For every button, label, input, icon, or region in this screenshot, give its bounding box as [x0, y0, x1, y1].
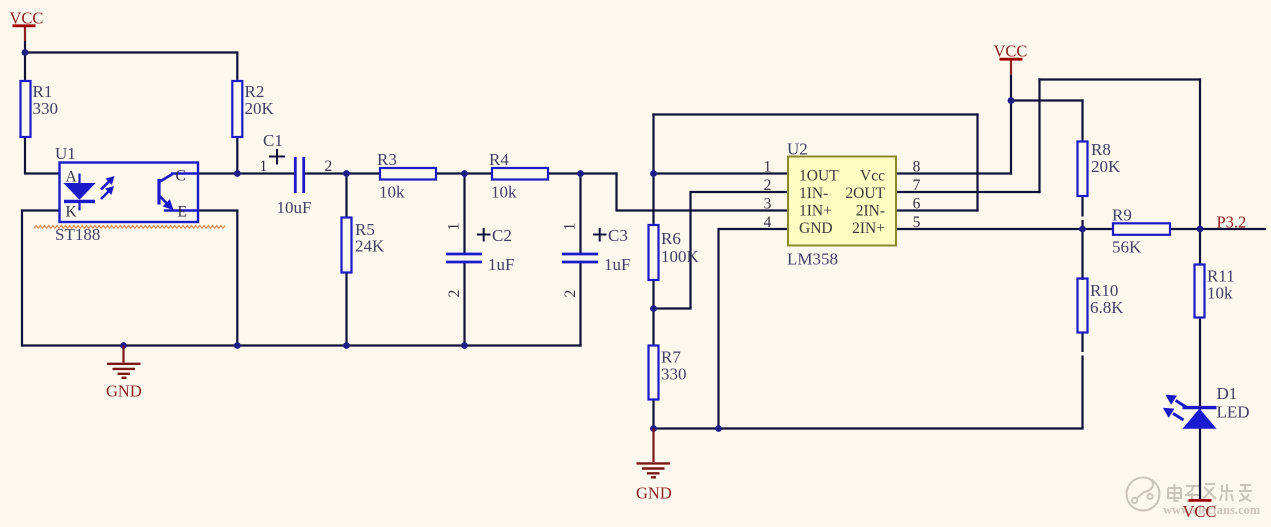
wire node to C3 top	[579, 174, 581, 254]
wire VCC node to R8	[1010, 99, 1084, 101]
wire R1 bottom to U1 pin A	[24, 137, 60, 174]
svg-text:GND: GND	[799, 220, 833, 237]
wire pin7 riser	[1038, 78, 1040, 193]
wire C3 bottom lead	[579, 263, 581, 347]
node C2/rail junction	[461, 342, 468, 349]
capacitor C1 plates	[295, 157, 303, 193]
svg-text:P3.2: P3.2	[1217, 213, 1247, 232]
wire U2 pin7 2OUT	[896, 191, 1041, 193]
node R2/C pin junction	[234, 170, 241, 177]
capacitor C2 plates	[446, 254, 482, 262]
svg-text:1uF: 1uF	[488, 255, 514, 274]
diode D1 cathode bar	[1183, 406, 1217, 409]
U1 LED anode stub	[78, 174, 80, 185]
wire top right horizontal	[1038, 78, 1201, 80]
U1 LED cathode bar	[64, 200, 95, 203]
node VCC2 junction	[1008, 97, 1015, 104]
node P3.2 junction	[1197, 226, 1204, 233]
svg-text:VCC: VCC	[1183, 502, 1217, 521]
resistor R4	[492, 168, 548, 180]
resistor R1	[21, 81, 31, 137]
svg-text:R3: R3	[377, 150, 397, 169]
svg-text:1IN-: 1IN-	[799, 185, 828, 202]
svg-text:330: 330	[33, 99, 59, 118]
svg-text:R4: R4	[489, 150, 509, 169]
U1 phototransistor emitter with arrow	[160, 196, 173, 209]
wire pin8 riser to VCC	[1010, 99, 1012, 174]
node R4/C3 junction	[577, 170, 584, 177]
svg-text:VCC: VCC	[10, 9, 44, 28]
svg-text:C2: C2	[492, 226, 512, 245]
svg-text:5: 5	[913, 214, 921, 231]
svg-text:R6: R6	[661, 229, 681, 248]
resistor R2	[232, 81, 242, 137]
capacitor C3 plates	[562, 254, 598, 262]
node R6/R7/pin2 junction	[650, 305, 657, 312]
svg-text:330: 330	[661, 365, 687, 384]
wire D1 to VCC3	[1199, 408, 1201, 500]
svg-text:100K: 100K	[661, 247, 700, 266]
U1 phototransistor base bar	[157, 179, 160, 205]
svg-text:E: E	[178, 204, 187, 221]
ground symbol GND1	[107, 346, 141, 378]
node R8/R9/R10 junction	[1079, 226, 1086, 233]
svg-text:10uF: 10uF	[277, 198, 312, 217]
wire U1 pin K	[21, 209, 60, 211]
svg-text:C1: C1	[263, 131, 283, 150]
wire feedback top horizontal	[652, 113, 978, 115]
wire gnd rail 2	[652, 427, 1083, 429]
wire R11 to D1	[1199, 317, 1201, 408]
wire U2 pin5 row to R9	[896, 228, 1114, 230]
svg-text:1uF: 1uF	[604, 255, 630, 274]
wire R7 top lead	[652, 309, 654, 347]
resistor R10	[1078, 279, 1088, 333]
svg-text:10k: 10k	[491, 183, 517, 202]
node pin4/rail junction	[715, 425, 722, 432]
D1 emission arrow lower	[1164, 409, 1183, 420]
node VCC1 junction	[22, 49, 29, 56]
svg-text:2OUT: 2OUT	[845, 185, 885, 202]
svg-text:GND: GND	[636, 484, 672, 503]
svg-text:R9: R9	[1112, 206, 1132, 225]
wire U2 pin8 Vcc	[896, 172, 1012, 174]
U1 emission arrow upper	[101, 177, 113, 189]
svg-text:6.8K: 6.8K	[1090, 298, 1124, 317]
D1 emission arrow upper	[1167, 396, 1186, 407]
wire pin2 vertical	[689, 191, 691, 309]
wire C1 to node 2 to R3	[304, 172, 382, 174]
svg-text:7: 7	[913, 177, 921, 194]
svg-text:20K: 20K	[245, 99, 275, 118]
wire R6 bottom lead	[652, 279, 654, 310]
wire R8 bottom lead	[1081, 195, 1083, 230]
svg-text:8: 8	[913, 159, 921, 176]
svg-text:3: 3	[764, 196, 772, 213]
wire jog to U2 pin 3	[617, 209, 789, 211]
svg-text:2: 2	[446, 290, 463, 298]
wire K loop vertical	[21, 209, 23, 346]
wire gnd rail 1	[21, 344, 582, 346]
wire R5 bottom lead	[345, 272, 347, 347]
svg-text:1: 1	[764, 159, 772, 176]
wire pin4 vertical to gnd rail	[717, 228, 719, 429]
wire pin2 to R6/R7 node	[652, 307, 691, 309]
wire U1 collector row interior	[171, 172, 198, 174]
resistor R11	[1195, 265, 1205, 318]
resistor R3	[380, 168, 436, 180]
svg-text:GND: GND	[106, 382, 142, 401]
resistor R6	[649, 225, 659, 280]
wire R10 top lead	[1081, 228, 1083, 280]
wire R11 top lead	[1199, 229, 1201, 266]
capacitor C3 plus sign	[593, 228, 607, 242]
U1 phototransistor collector	[160, 174, 173, 182]
svg-text:10k: 10k	[1207, 284, 1233, 303]
svg-text:6: 6	[913, 196, 921, 213]
power VCC2 bar	[1000, 58, 1023, 61]
svg-text:2: 2	[562, 290, 579, 298]
resistor R5	[342, 218, 352, 273]
node 1OUT/R6 junction	[650, 170, 657, 177]
wire R4 to jog corner	[547, 172, 618, 174]
svg-text:U2: U2	[787, 140, 808, 159]
svg-text:2: 2	[325, 158, 333, 175]
wire R3 to R4	[435, 172, 493, 174]
svg-text:VCC: VCC	[994, 42, 1028, 61]
svg-text:1: 1	[562, 223, 579, 231]
ground symbol GND2	[637, 429, 671, 478]
node R5/rail junction	[343, 342, 350, 349]
wire U1 pin C to C1	[197, 172, 296, 174]
svg-text:1IN+: 1IN+	[799, 203, 832, 220]
svg-text:2IN+: 2IN+	[852, 220, 885, 237]
svg-text:Vcc: Vcc	[860, 168, 885, 185]
wire top rail VCC to R2	[24, 51, 239, 53]
U1 emission arrow lower	[101, 187, 113, 199]
wire R8 top drop	[1081, 99, 1083, 142]
wire U2 pin1 1OUT to R6 node	[652, 172, 788, 174]
capacitor C2 plus sign	[477, 228, 491, 242]
svg-text:56K: 56K	[1112, 238, 1142, 257]
wire U1 emitter row interior	[164, 209, 198, 211]
svg-text:U1: U1	[55, 144, 76, 163]
svg-text:A: A	[66, 169, 78, 186]
wire U2 pin4 GND	[719, 228, 789, 230]
watermark logo circle	[1127, 478, 1160, 511]
svg-text:1OUT: 1OUT	[799, 168, 839, 185]
svg-text:1: 1	[260, 158, 268, 175]
node GND1 junction	[120, 342, 127, 349]
wire R6 node vertical to R6 top	[652, 113, 654, 226]
wire P3.2 riser	[1199, 78, 1201, 229]
resistor R9	[1113, 223, 1170, 235]
wire R10 bottom riser	[1081, 332, 1083, 429]
resistor R7	[649, 346, 659, 400]
wire node2 to R5 top	[345, 174, 347, 219]
wire U2 pin2 1IN-	[691, 191, 789, 193]
wire E loop vertical	[236, 211, 238, 346]
wire U1 pin E	[197, 209, 238, 211]
svg-text:2IN-: 2IN-	[856, 203, 885, 220]
node GND2 junction	[650, 425, 657, 432]
wire R2 top lead	[236, 53, 238, 82]
optocoupler U1 box	[60, 163, 199, 223]
svg-text:4: 4	[764, 214, 772, 231]
node E loop/rail junction	[234, 342, 241, 349]
svg-text:K: K	[66, 204, 78, 221]
svg-text:C3: C3	[608, 226, 628, 245]
svg-text:24K: 24K	[355, 237, 385, 256]
svg-text:2: 2	[764, 177, 772, 194]
diode D1 triangle	[1184, 409, 1216, 428]
svg-text:LM358: LM358	[787, 250, 838, 269]
wire VCC2 to node	[1010, 75, 1012, 102]
op-amp U2 box	[788, 157, 896, 246]
power VCC3 bar	[1189, 499, 1212, 502]
svg-text:1: 1	[446, 223, 463, 231]
svg-text:C: C	[176, 168, 186, 185]
resistor R8	[1078, 142, 1088, 197]
U1 LED triangle	[65, 184, 95, 200]
svg-text:D1: D1	[1217, 384, 1238, 403]
capacitor C1 plus sign	[269, 149, 285, 165]
wire VCC2 stem	[1010, 61, 1012, 76]
U1 LED cathode stub	[78, 203, 80, 211]
svg-text:20K: 20K	[1091, 157, 1121, 176]
wire VCC1 to node	[24, 41, 26, 54]
node R3/C2 junction	[461, 170, 468, 177]
wire node to C2 top	[463, 174, 465, 254]
watermark chinese text	[1168, 484, 1252, 502]
wire R7 bottom lead	[652, 399, 654, 430]
wire feedback down to pin6	[976, 113, 978, 211]
svg-text:10k: 10k	[379, 183, 405, 202]
wire VCC1 stem	[24, 27, 26, 41]
wire C2 bottom lead	[463, 263, 465, 347]
wire U2 pin6 2IN-	[896, 209, 979, 211]
wire R1 top lead	[24, 53, 26, 82]
wire jog down	[615, 172, 617, 211]
power VCC1 bar	[13, 24, 36, 27]
svg-text:LED: LED	[1217, 403, 1250, 422]
wire R2 bottom lead	[236, 137, 238, 174]
node 2 junction	[343, 170, 350, 177]
squiggle under ST188	[34, 226, 225, 229]
wire R9 to P3.2	[1169, 228, 1266, 230]
